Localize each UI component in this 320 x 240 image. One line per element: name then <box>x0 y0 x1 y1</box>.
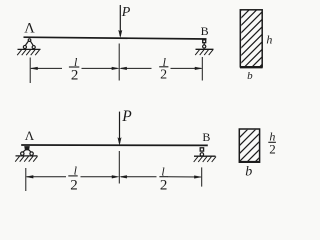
legs <box>23 150 26 152</box>
roller circles <box>21 152 24 155</box>
fraction l/2 (top right) <box>159 55 168 83</box>
ground hatching <box>195 50 213 55</box>
hatching of section <box>232 0 268 102</box>
pin support at A (top): hinge + two rollers + ground <box>17 39 40 55</box>
extension line left (bottom) <box>25 168 27 191</box>
ground hatching <box>17 50 39 55</box>
svg-text:Λ: Λ <box>24 21 35 37</box>
roller support at B (bottom): hinge square + roller + ground <box>194 148 216 162</box>
roller support at B (top): hinge square + roller + ground <box>195 40 213 55</box>
dimension line l/2 left span (top) <box>31 67 119 70</box>
beam AB (bottom figure) <box>21 144 208 146</box>
extension line middle (top) <box>118 44 120 81</box>
fraction l/2 (top left) <box>69 55 79 84</box>
pin support at A (bottom): hinge + two rollers + ground <box>15 147 37 162</box>
svg-text:B: B <box>202 130 210 144</box>
roller circle <box>203 45 206 48</box>
svg-text:2: 2 <box>269 142 276 157</box>
roller circle <box>200 153 203 156</box>
ground hatching <box>194 157 216 162</box>
thick bottom edge <box>239 161 260 163</box>
link <box>203 43 205 45</box>
extension line left (top) <box>29 58 31 84</box>
dimension line l/2 right span (bottom) <box>120 175 202 178</box>
ground line <box>194 155 216 157</box>
extension line middle (bottom) <box>118 151 120 184</box>
hinge block <box>25 147 30 151</box>
paper background <box>0 0 302 195</box>
load arrow P (bottom) <box>118 112 121 145</box>
dimension line l/2 right span (top) <box>120 67 202 70</box>
cross-section b x h/2 (bottom right) <box>231 103 276 194</box>
svg-text:2: 2 <box>160 177 168 193</box>
extension line right (top) <box>201 57 203 81</box>
ground hatching <box>15 156 37 161</box>
ground line <box>196 48 214 50</box>
hinge circle <box>28 39 31 42</box>
svg-text:h: h <box>266 32 272 46</box>
svg-text:P: P <box>121 5 131 20</box>
svg-text:b: b <box>247 70 253 82</box>
svg-text:2: 2 <box>160 67 167 82</box>
load arrow P (top) <box>119 5 122 37</box>
extension line right (bottom) <box>201 167 203 186</box>
svg-text:Λ: Λ <box>25 128 35 143</box>
hinge square <box>203 40 206 43</box>
ground line <box>16 155 38 157</box>
svg-text:2: 2 <box>71 68 79 84</box>
hinge square <box>200 148 203 151</box>
thick bottom edge <box>240 66 263 68</box>
roller circles <box>23 45 26 48</box>
svg-text:2: 2 <box>70 177 78 193</box>
svg-text:B: B <box>201 24 209 38</box>
dimension line l/2 left span (bottom) <box>26 175 119 178</box>
fraction l/2 (bottom right) <box>159 164 167 193</box>
hatching of section <box>231 103 266 194</box>
cross-section h x b (top right) <box>232 0 272 102</box>
fraction l/2 (bottom left) <box>68 164 77 194</box>
legs <box>25 41 28 45</box>
svg-text:b: b <box>245 165 252 180</box>
beam AB (top figure) <box>24 37 207 39</box>
svg-text:P: P <box>121 108 132 125</box>
ground line <box>18 48 41 50</box>
